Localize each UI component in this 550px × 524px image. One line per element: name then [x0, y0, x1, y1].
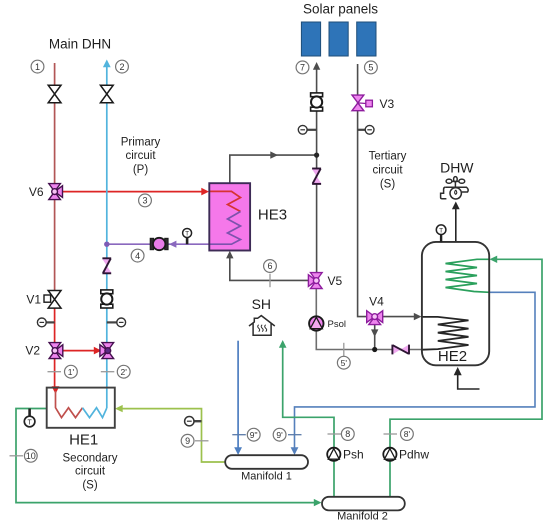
check valve (N) on tank coil return line	[392, 345, 409, 355]
DHW tank border	[422, 242, 489, 365]
wire cyan arrow up to DHN	[103, 60, 111, 68]
svg-text:1: 1	[35, 62, 40, 72]
wire green arrow into manifold 2 left port	[314, 499, 322, 506]
tick node 8	[328, 433, 342, 435]
valve V2 (3-way)	[49, 343, 63, 359]
node 10	[24, 449, 37, 462]
svg-text:Solar panels: Solar panels	[303, 2, 378, 17]
svg-text:5': 5'	[341, 358, 348, 368]
temperature sensor on DHN supply line	[46, 321, 55, 323]
LAYER4: symbols	[24, 22, 468, 461]
manifold 2 border	[322, 497, 405, 511]
svg-text:2': 2'	[121, 367, 128, 377]
shut-off valve on DHN supply line	[48, 85, 61, 103]
wire HE1 internal cyan zigzag	[83, 408, 107, 418]
node 4	[131, 249, 144, 262]
wire HE1 internal red zigzag	[56, 391, 83, 418]
temperature sensor on solar right line	[358, 129, 366, 131]
svg-text:T: T	[185, 231, 189, 238]
svg-text:9'': 9''	[250, 430, 258, 440]
tick node 10	[10, 455, 24, 457]
pump Psh	[327, 448, 340, 461]
node 5'	[337, 356, 350, 369]
wire V5 down through Psol to node 5' line	[316, 289, 422, 350]
svg-text:V2: V2	[25, 344, 40, 358]
node 5	[365, 61, 378, 74]
svg-text:V1: V1	[26, 292, 41, 306]
node 8'	[401, 428, 414, 441]
heat exchanger HE1 body	[47, 388, 115, 428]
SH house icon	[249, 316, 275, 336]
svg-text:(P): (P)	[133, 164, 149, 176]
svg-text:8: 8	[345, 429, 350, 439]
svg-text:Secondary: Secondary	[63, 453, 118, 465]
svg-text:T: T	[27, 419, 32, 426]
wire solar right vertical (node 5 line) to V4	[358, 64, 367, 317]
svg-text:HE2: HE2	[438, 348, 467, 365]
wire DHW loop green: manifold 2 via Pdhw up to tank coil	[390, 259, 542, 497]
tick node 2'	[101, 371, 115, 373]
wire secondary loop sea-green: HE1 left down to manifold 2 (node 10)	[16, 409, 315, 503]
tick node 1'	[48, 371, 62, 373]
svg-text:5: 5	[368, 63, 373, 73]
node 1'	[65, 365, 78, 378]
wire DHN return vertical (node 2 line, cyan)	[106, 67, 108, 409]
temperature sensor on DHN return line	[107, 321, 118, 323]
wire SH supply green vertical	[283, 347, 334, 497]
wire blue arrow into manifold 1 left port	[234, 447, 242, 455]
valve V4 (3-way)	[367, 311, 383, 325]
wire red arrow into valve on cyan line	[94, 347, 102, 355]
tick node 9''	[232, 434, 246, 436]
node 9''	[247, 428, 260, 441]
svg-text:HE1: HE1	[69, 432, 98, 449]
svg-text:Tertiary: Tertiary	[369, 151, 407, 163]
node 9'	[273, 428, 286, 441]
node junction solar-left dot	[314, 153, 319, 158]
thermometer T on violet line	[186, 238, 189, 244]
node junction violet dot	[104, 242, 109, 247]
svg-text:V4: V4	[369, 295, 384, 309]
svg-text:6: 6	[267, 261, 272, 271]
svg-text:V6: V6	[29, 185, 44, 199]
svg-text:circuit: circuit	[125, 150, 156, 162]
wire DHW tank return blue line (tank right, long horizontal, to manifold 1)	[295, 292, 536, 448]
heat exchanger HE1 border	[47, 388, 115, 428]
svg-text:Primary: Primary	[121, 137, 161, 149]
solar panel 2	[329, 22, 348, 56]
wire gray arrow up into HE3 bottom	[226, 251, 233, 259]
svg-text:2: 2	[119, 62, 124, 72]
svg-text:4: 4	[135, 251, 140, 261]
node 9	[181, 434, 194, 447]
wire green arrow into tank coil top	[490, 256, 498, 263]
valve V6 (3-way)	[49, 184, 63, 200]
check valve (Z) on cyan line below node 4	[102, 258, 111, 273]
node 2'	[117, 365, 130, 378]
wire yellow-green arrow into HE1 right	[115, 405, 123, 412]
wire black arrow up to DHW faucet	[452, 202, 460, 210]
node 7	[296, 61, 309, 74]
node 8	[341, 428, 354, 441]
valve V5 (3-way)	[308, 273, 322, 289]
node 2	[116, 60, 129, 73]
wire V4 to tank coil top	[383, 316, 415, 318]
node 6	[264, 260, 277, 273]
temperature sensor on yellow-green line	[194, 420, 202, 422]
heat exchanger HE3 body	[209, 183, 250, 250]
valve V3 with actuator	[358, 102, 366, 105]
temperature sensor on solar left line	[307, 129, 317, 131]
wire red arrow into HE1	[52, 386, 60, 394]
heat exchanger HE2 black coil in tank	[422, 317, 468, 350]
manifold 2 body	[322, 497, 405, 511]
svg-text:Pdhw: Pdhw	[399, 448, 429, 462]
tick node 5'	[343, 343, 345, 357]
wire manifold 1 to HE1 yellow-green (node 9)	[119, 409, 225, 462]
flanged pump symbol on solar left line	[311, 93, 323, 111]
DHW tank green solar coil	[446, 259, 490, 292]
svg-text:Manifold 2: Manifold 2	[337, 511, 388, 523]
temperature sensor T left of HE1	[28, 409, 31, 417]
svg-text:3: 3	[142, 196, 147, 206]
node junction below V4 dot	[372, 347, 377, 352]
svg-text:V5: V5	[328, 274, 343, 288]
flanged pump symbol on DHN return line	[101, 290, 113, 308]
wire gray arrow up to solar panels	[313, 62, 320, 70]
wire gray arrow V4 down	[371, 329, 378, 337]
heat exchanger HE3 coil (red to violet)	[209, 191, 240, 211]
svg-text:HE3: HE3	[258, 207, 287, 224]
wire DHN supply vertical (node 1 line, brick red)	[54, 63, 56, 299]
tick node 8'	[384, 433, 398, 435]
svg-text:9: 9	[185, 436, 190, 446]
manifold 1 border	[225, 455, 308, 469]
DHW faucet icon	[441, 177, 469, 199]
solar panel 1	[301, 22, 320, 56]
tick node 9'	[288, 434, 302, 436]
shut-off valve on DHN return line	[100, 85, 113, 103]
node 3	[139, 194, 152, 207]
svg-text:circuit: circuit	[75, 466, 106, 478]
svg-text:(S): (S)	[380, 179, 396, 191]
DHW tank body	[422, 242, 489, 365]
svg-text:Manifold 1: Manifold 1	[241, 471, 292, 483]
node 1	[31, 60, 44, 73]
wire DHN supply lower vertical into HE1 (bright red)	[54, 299, 56, 387]
wire HE3 bottom to V5 (node 6)	[230, 258, 309, 281]
valve V1 with actuator	[48, 298, 50, 300]
svg-text:(S): (S)	[82, 480, 98, 492]
wire black arrow up into tank bottom	[454, 367, 462, 375]
svg-text:circuit: circuit	[372, 165, 403, 177]
wire violet arrow toward pump	[169, 241, 176, 248]
pump Pdhw	[383, 448, 396, 461]
svg-text:1': 1'	[68, 367, 75, 377]
svg-text:DHW: DHW	[440, 160, 474, 176]
tick node 6	[269, 274, 271, 288]
wire V4 down to junction	[374, 325, 376, 350]
temperature sensor T on tank top	[440, 234, 442, 242]
svg-text:Psh: Psh	[343, 448, 364, 462]
wire tank bottom cold feed	[458, 375, 480, 390]
wire blue arrow into manifold 1 right port	[291, 447, 299, 455]
flanged pump on HE3 outlet violet line	[150, 238, 168, 250]
3-way valve on cyan line at node 2'	[100, 343, 114, 359]
svg-text:SH: SH	[252, 296, 271, 312]
manifold 1 body	[225, 455, 308, 469]
svg-text:Psol: Psol	[328, 319, 346, 330]
LAYER3: box strokes + coils	[47, 183, 490, 510]
wire SH return blue vertical to manifold 1	[237, 341, 239, 449]
svg-text:10: 10	[26, 451, 36, 461]
heat exchanger HE3 border	[209, 183, 250, 250]
svg-text:Main DHN: Main DHN	[49, 37, 111, 52]
solar panel 3	[357, 22, 376, 56]
svg-text:7: 7	[300, 63, 305, 73]
wire red arrow into HE3	[201, 188, 209, 196]
wire HE3 outlet violet horizontal (node 4)	[107, 243, 210, 245]
wire green arrow up to SH	[279, 340, 287, 348]
svg-text:T: T	[439, 227, 443, 234]
svg-text:9': 9'	[276, 430, 283, 440]
wire V6 to HE3 horizontal (node 3, bright red)	[60, 191, 203, 193]
wire V2 to cyan-line valve horizontal (bright red)	[61, 350, 96, 352]
pump Psol	[309, 316, 323, 330]
check valve (Z) on solar left line	[312, 169, 321, 184]
wire solar left vertical (node 7 line)	[316, 69, 318, 273]
wire HE3 top to solar junction	[230, 155, 317, 183]
wire DHW outlet vertical	[455, 209, 457, 243]
tick node 9	[195, 440, 209, 442]
wire gray arrow into tank	[414, 313, 422, 320]
svg-text:8': 8'	[404, 429, 411, 439]
wire gray arrow on HE3 top line	[270, 151, 278, 158]
svg-text:V3: V3	[380, 97, 395, 111]
